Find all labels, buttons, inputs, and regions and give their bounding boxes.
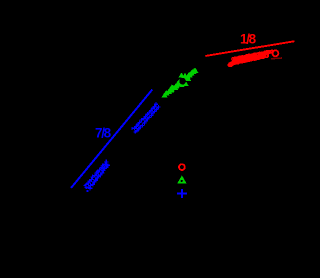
red reference line slope 1/8	[205, 41, 294, 56]
legend: blue plus marker	[177, 189, 187, 198]
black hole marker over green cluster	[179, 78, 186, 85]
svg-text:7/8: 7/8	[95, 125, 112, 140]
red large circle marker at end of chain	[272, 50, 278, 56]
legend: red circle marker	[179, 164, 185, 170]
blue data chain B (upper cluster of plus markers with line)	[131, 102, 160, 134]
svg-text:1/8: 1/8	[240, 31, 257, 46]
label 1/8	[240, 31, 257, 46]
blue data chain A (lower cluster of plus markers with line)	[84, 160, 110, 192]
blue reference line slope 7/8	[71, 90, 152, 189]
legend: green triangle marker	[177, 175, 187, 183]
red data chain lower (circle markers with line)	[228, 54, 268, 66]
green data cluster (triangle markers with line)	[162, 67, 199, 97]
dim red marks below large circle	[271, 57, 282, 60]
red data chain upper (circle markers with line)	[232, 50, 273, 60]
label 7/8	[95, 125, 112, 140]
